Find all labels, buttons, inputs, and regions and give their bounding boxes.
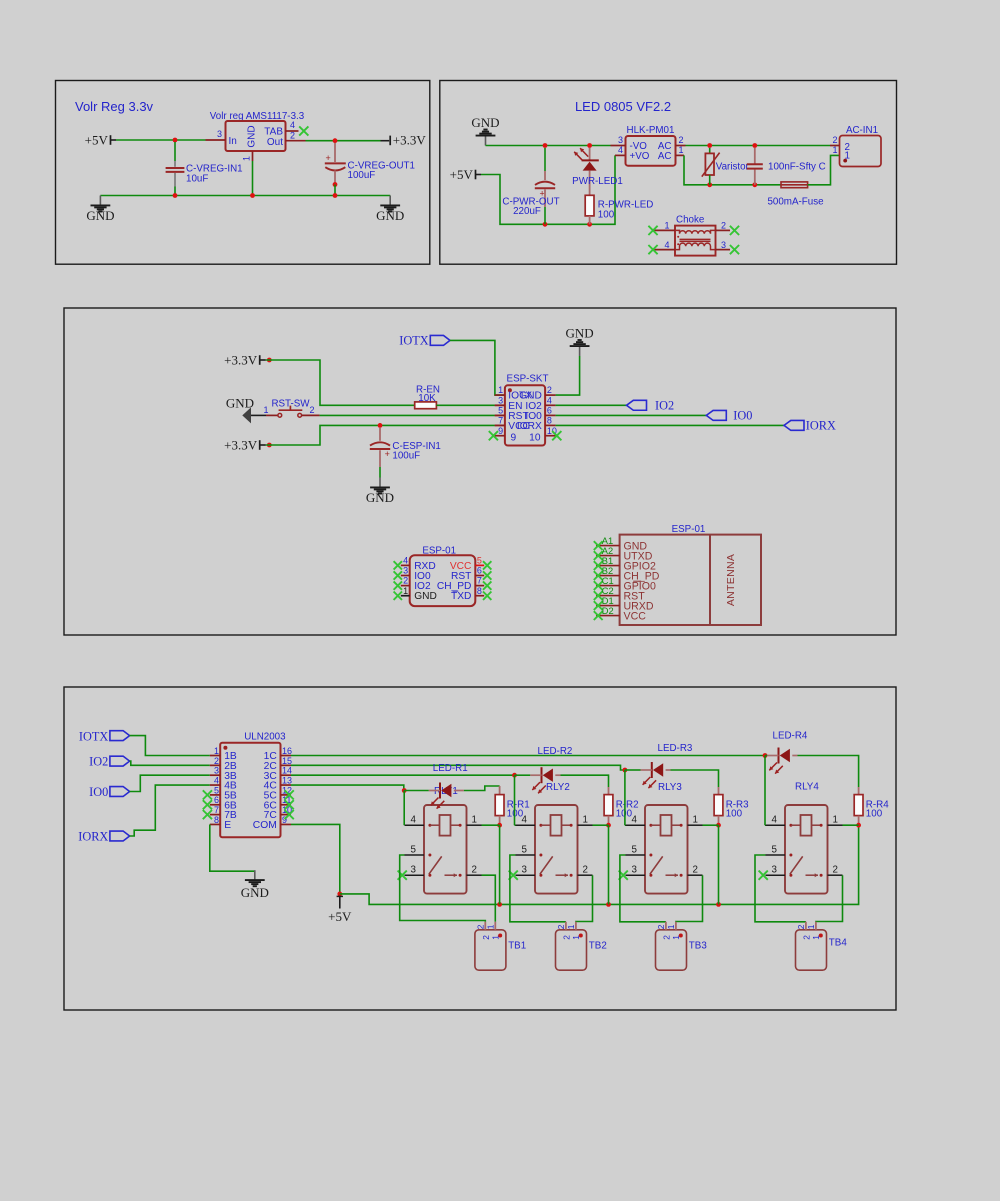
svg-text:100: 100 xyxy=(866,808,883,819)
svg-text:C2: C2 xyxy=(602,586,614,596)
junction GND rail at C-VREG-IN1 xyxy=(173,193,178,198)
resistor R-EN 10K xyxy=(415,402,437,409)
wire ULN COM to +5V xyxy=(291,824,340,893)
svg-text:8: 8 xyxy=(547,416,552,426)
net label IOTX xyxy=(430,335,450,345)
svg-text:3: 3 xyxy=(403,566,408,576)
svg-text:5: 5 xyxy=(632,844,638,855)
junction top rail at PWR-LED1 xyxy=(587,143,592,148)
svg-text:2: 2 xyxy=(556,924,566,929)
svg-text:4: 4 xyxy=(772,815,778,826)
svg-text:4: 4 xyxy=(411,815,417,826)
svg-text:100nF-Sfty C: 100nF-Sfty C xyxy=(768,161,826,172)
svg-text:ULN2003: ULN2003 xyxy=(244,732,286,743)
wire IO2 to ULN 2B xyxy=(130,761,210,765)
svg-text:100: 100 xyxy=(598,209,615,220)
wire GND rail bottom xyxy=(100,195,390,197)
svg-text:+VO: +VO xyxy=(630,151,650,162)
capacitor C-PWR-OUT 220uF polarized xyxy=(544,148,546,171)
wire GND rail top xyxy=(486,145,611,147)
svg-text:100uF: 100uF xyxy=(348,170,376,181)
svg-text:2: 2 xyxy=(662,935,672,940)
svg-text:5: 5 xyxy=(522,844,528,855)
junction AC rail at safety cap xyxy=(752,143,757,148)
section frame ESP xyxy=(64,308,896,635)
svg-text:+5V: +5V xyxy=(328,909,352,924)
svg-text:GND: GND xyxy=(86,208,114,223)
wire HLK AC to AC-IN1 xyxy=(686,145,831,147)
svg-text:13: 13 xyxy=(282,775,292,785)
svg-text:+3.3V: +3.3V xyxy=(224,437,258,452)
section frame relays xyxy=(64,687,896,1010)
wire ULN 3C row xyxy=(291,774,515,776)
wire HLK AC pin1 to bottom AC rail xyxy=(684,155,705,184)
wire RLY4 pin5 to TB4 xyxy=(755,855,806,922)
fuse F1 500mA xyxy=(781,182,808,188)
svg-text:A1: A1 xyxy=(602,536,613,546)
svg-text:GND: GND xyxy=(471,115,499,130)
wire RLY3 pin5 to TB3 xyxy=(620,855,666,922)
no-connect RLY4 pin3 xyxy=(759,871,768,880)
power flag +3.3V xyxy=(389,136,391,146)
terminal block TB1 xyxy=(475,930,506,970)
wire LED-R4 to R-R4 xyxy=(798,756,859,788)
svg-text:ESP-01: ESP-01 xyxy=(672,524,706,535)
svg-text:16: 16 xyxy=(282,746,292,756)
svg-text:4: 4 xyxy=(632,815,638,826)
svg-text:IO2: IO2 xyxy=(655,399,674,413)
section frame LED 0805 VF2.2 xyxy=(440,81,897,265)
svg-text:D2: D2 xyxy=(602,606,614,616)
svg-text:220uF: 220uF xyxy=(513,206,541,217)
svg-text:5: 5 xyxy=(477,556,482,566)
svg-text:LED 0805 VF2.2: LED 0805 VF2.2 xyxy=(575,99,671,114)
junction bottom rail at C-PWR-OUT xyxy=(543,222,548,227)
svg-text:500mA-Fuse: 500mA-Fuse xyxy=(767,196,824,207)
svg-text:2: 2 xyxy=(403,576,408,586)
svg-text:LED-R2: LED-R2 xyxy=(538,746,573,757)
net label IO0 xyxy=(110,787,130,797)
svg-text:5: 5 xyxy=(498,406,503,416)
svg-text:7: 7 xyxy=(477,576,482,586)
junction +5V rail at RLY1 xyxy=(497,902,502,907)
no-connect ESP-SKT pin10 xyxy=(552,431,561,440)
ground GND below C-ESP-IN1 xyxy=(379,478,381,488)
no-connect RLY3 pin3 xyxy=(619,871,628,880)
svg-text:GND: GND xyxy=(414,591,437,602)
svg-text:4: 4 xyxy=(403,556,408,566)
svg-text:2: 2 xyxy=(656,924,666,929)
wire LED-R3 to R-R3 xyxy=(671,770,719,787)
svg-text:LED-R4: LED-R4 xyxy=(773,730,808,741)
terminal block TB3 xyxy=(656,930,687,970)
svg-text:1: 1 xyxy=(486,924,496,929)
svg-text:5: 5 xyxy=(411,844,417,855)
svg-text:COM: COM xyxy=(253,820,277,831)
wire +5V to U-VREG In xyxy=(116,139,206,141)
wire 3C down to RLY2 pin4 xyxy=(514,775,516,825)
no-connect ESP-SKT pin9 xyxy=(489,431,498,440)
section frame Volr Reg 3.3v xyxy=(56,81,430,265)
wire ULN 1C row xyxy=(291,755,765,757)
capacitor 100nF-Sfty C xyxy=(754,148,756,164)
svg-text:IOTX: IOTX xyxy=(79,729,108,743)
junction GND rail at C-VREG-OUT1 xyxy=(333,193,338,198)
svg-text:4: 4 xyxy=(547,395,552,405)
wire RLY4 pin1 to +5V rail xyxy=(843,824,859,826)
svg-text:100: 100 xyxy=(726,808,743,819)
wire 2C down to RLY3 pin4 xyxy=(624,770,626,825)
wire RLY3 pin1 to +5V rail xyxy=(703,824,719,826)
svg-text:TXD: TXD xyxy=(451,591,471,602)
wire RLY4 pin2 to TB4 xyxy=(816,875,843,922)
wire IO0 to ULN 3B xyxy=(130,775,210,791)
svg-text:2: 2 xyxy=(547,385,552,395)
wire GND to ESP-SKT pin2 xyxy=(556,356,580,395)
no-connect choke pin4 xyxy=(648,245,657,254)
junction bottom AC rail at safety cap xyxy=(752,182,757,187)
resistor R-R1 100 xyxy=(495,795,504,816)
svg-text:+5V: +5V xyxy=(85,132,109,147)
wire ULN 2C row xyxy=(291,765,625,770)
power flag +5V xyxy=(337,892,342,897)
wire +3.3V to ESP-SKT pin7 VCC xyxy=(266,425,495,445)
svg-text:C1: C1 xyxy=(602,576,614,586)
no-connect ULN 7C xyxy=(285,810,294,819)
power flag +5V xyxy=(110,135,112,145)
junction at +3.3V lower xyxy=(267,443,272,448)
svg-text:IO2: IO2 xyxy=(89,755,108,769)
svg-text:4: 4 xyxy=(618,145,623,155)
svg-text:2: 2 xyxy=(214,756,219,766)
junction at C-VREG-OUT1 top xyxy=(333,138,338,143)
svg-text:3: 3 xyxy=(522,865,528,876)
LED PWR-LED1 xyxy=(589,148,591,160)
svg-text:3: 3 xyxy=(411,865,417,876)
svg-text:RLY2: RLY2 xyxy=(546,782,570,793)
svg-text:GND: GND xyxy=(366,490,394,505)
svg-text:2: 2 xyxy=(833,865,838,876)
wire RLY1 pin1 to R-R1 to +5V rail xyxy=(482,824,500,826)
svg-text:10uF: 10uF xyxy=(186,173,208,184)
no-connect ULN 7B xyxy=(203,810,212,819)
svg-text:1: 1 xyxy=(566,924,576,929)
junction +5V rail at RLY3 xyxy=(716,902,721,907)
svg-text:4: 4 xyxy=(664,240,669,250)
svg-text:10K: 10K xyxy=(418,393,436,404)
svg-text:4: 4 xyxy=(214,775,219,785)
no-connect on U1 TAB xyxy=(299,126,308,135)
svg-text:LED-R3: LED-R3 xyxy=(658,743,693,754)
junction RLY2 pin1 node xyxy=(606,823,611,828)
junction bottom rail at R-PWR-LED xyxy=(587,222,592,227)
wire RLY1 pin2 to TB1 xyxy=(482,875,496,922)
no-connect ULN 5B xyxy=(203,790,212,799)
svg-text:2: 2 xyxy=(679,135,684,145)
ground GND left xyxy=(99,196,101,206)
net label IO0 xyxy=(706,410,726,420)
svg-text:2: 2 xyxy=(721,220,726,230)
svg-text:TB4: TB4 xyxy=(829,937,848,948)
wire U1 GND pin down xyxy=(252,161,254,196)
wire RLY2 pin5 to TB2 xyxy=(510,855,566,922)
svg-text:Out: Out xyxy=(267,137,283,148)
svg-text:2: 2 xyxy=(562,935,572,940)
junction at +3.3V upper xyxy=(267,358,272,363)
resistor R-R3 100 xyxy=(714,795,723,816)
svg-text:IORX: IORX xyxy=(517,421,542,432)
svg-text:3: 3 xyxy=(772,865,778,876)
svg-text:IORX: IORX xyxy=(806,419,836,433)
wire +3.3V to R-EN xyxy=(266,360,415,405)
wire IORX to ULN 4B xyxy=(130,785,210,836)
svg-text:2: 2 xyxy=(476,924,486,929)
resistor R-PWR-LED 100 xyxy=(585,195,594,216)
svg-text:1: 1 xyxy=(806,924,816,929)
svg-text:B2: B2 xyxy=(602,566,613,576)
no-connect choke pin1 xyxy=(648,226,657,235)
svg-text:9: 9 xyxy=(498,426,503,436)
svg-text:3: 3 xyxy=(632,865,638,876)
svg-text:6: 6 xyxy=(214,795,219,805)
svg-text:7: 7 xyxy=(498,416,503,426)
no-connect choke pin2 xyxy=(730,226,739,235)
svg-text:3: 3 xyxy=(498,395,503,405)
junction AC rail at Varistor xyxy=(707,143,712,148)
wire 4C down to RLY1 pin4 xyxy=(403,791,405,826)
capacitor C-VREG-OUT1 100uF polarized xyxy=(334,143,336,162)
wire 1C to LED-R4 xyxy=(765,755,767,757)
wire LED-R2 to R-R2 xyxy=(561,775,609,787)
wire RLY2 pin1 to +5V rail xyxy=(593,824,609,826)
svg-text:1: 1 xyxy=(214,746,219,756)
wire RLY1 pin5 to TB1 xyxy=(400,855,486,922)
svg-text:2: 2 xyxy=(472,865,477,876)
svg-text:3: 3 xyxy=(217,129,222,139)
svg-text:9: 9 xyxy=(511,433,517,444)
svg-text:2: 2 xyxy=(693,865,698,876)
net label IORX xyxy=(110,831,130,841)
svg-text:2: 2 xyxy=(290,131,295,141)
terminal block TB2 xyxy=(556,930,587,970)
wire 4C to LED-R1 and RLY1 pin4 xyxy=(404,790,429,792)
svg-text:RLY3: RLY3 xyxy=(658,782,682,793)
svg-text:IO0: IO0 xyxy=(89,785,108,799)
svg-text:6: 6 xyxy=(547,406,552,416)
ground GND below ULN xyxy=(254,870,256,880)
svg-text:TB3: TB3 xyxy=(689,941,708,952)
power flag +3.3V upper xyxy=(259,355,261,365)
svg-text:2: 2 xyxy=(832,135,837,145)
no-connect ULN 6C xyxy=(285,800,294,809)
svg-text:GND: GND xyxy=(376,208,404,223)
svg-text:1: 1 xyxy=(472,815,477,826)
svg-text:2: 2 xyxy=(802,935,812,940)
svg-text:1: 1 xyxy=(833,815,838,826)
svg-text:IO0: IO0 xyxy=(733,409,752,423)
junction 3C at LED-R2 xyxy=(512,773,517,778)
wire U1 Out to +3.3V xyxy=(306,140,381,142)
junction RLY4 pin1 node xyxy=(856,823,861,828)
svg-text:1: 1 xyxy=(666,924,676,929)
svg-text:E: E xyxy=(224,820,231,831)
ground GND top xyxy=(579,347,581,356)
svg-text:+3.3V: +3.3V xyxy=(393,133,427,148)
svg-text:100uF: 100uF xyxy=(392,451,420,462)
resistor R-R2 100 xyxy=(604,795,613,816)
junction bottom AC rail at Varistor xyxy=(707,182,712,187)
junction 4C at LED-R1 xyxy=(402,788,407,793)
svg-text:IORX: IORX xyxy=(78,829,108,843)
svg-text:GND: GND xyxy=(241,885,269,900)
wire 1C down to RLY4 pin4 xyxy=(764,756,766,826)
junction 1C at LED-R4 xyxy=(763,753,768,758)
svg-text:+: + xyxy=(385,449,390,459)
svg-text:GND: GND xyxy=(226,396,254,411)
wire RST-SW to ESP-SKT pin5 xyxy=(320,414,495,416)
svg-text:1: 1 xyxy=(583,815,588,826)
no-connect ULN 5C xyxy=(285,790,294,799)
svg-text:2: 2 xyxy=(583,865,588,876)
svg-text:In: In xyxy=(229,136,237,147)
junction 2C at LED-R3 xyxy=(623,768,628,773)
resistor R-R4 100 xyxy=(854,795,863,816)
svg-text:+5V: +5V xyxy=(450,167,474,182)
svg-text:AC: AC xyxy=(658,151,672,162)
svg-text:VCC: VCC xyxy=(624,610,647,622)
svg-text:Varistor: Varistor xyxy=(716,161,750,172)
junction GND rail at U1 GND xyxy=(250,193,255,198)
wire ESP-SKT IORX to tag xyxy=(556,424,784,426)
junction top rail at C-PWR-OUT xyxy=(543,143,548,148)
wire ULN E to GND xyxy=(210,824,255,871)
svg-text:1: 1 xyxy=(263,405,268,415)
net label IO2 xyxy=(627,400,647,410)
svg-text:1: 1 xyxy=(679,145,684,155)
svg-text:+3.3V: +3.3V xyxy=(224,352,258,367)
svg-text:IOTX: IOTX xyxy=(399,334,428,348)
svg-text:D1: D1 xyxy=(602,596,614,606)
svg-text:Volr Reg 3.3v: Volr Reg 3.3v xyxy=(75,99,154,114)
no-connect ULN 6B xyxy=(203,800,212,809)
net label IORX xyxy=(784,420,804,430)
svg-text:1: 1 xyxy=(242,156,252,161)
wire LED-R1 to R-R1 xyxy=(464,786,500,791)
svg-text:+: + xyxy=(326,153,331,163)
svg-text:LED-R1: LED-R1 xyxy=(433,763,468,774)
junction RLY3 pin1 node xyxy=(716,823,721,828)
svg-text:2: 2 xyxy=(796,924,806,929)
wire ESP-SKT IO0 to tag xyxy=(556,414,707,416)
svg-text:8: 8 xyxy=(214,815,219,825)
wire +5V rail xyxy=(340,825,859,904)
svg-text:4: 4 xyxy=(522,815,528,826)
svg-text:3: 3 xyxy=(618,135,623,145)
wire +5V to bottom rail xyxy=(481,155,615,224)
junction VCC at C-ESP-IN1 xyxy=(378,423,383,428)
junction RLY1 pin1 node xyxy=(497,823,502,828)
svg-text:1: 1 xyxy=(403,586,408,596)
power flag +3.3V lower xyxy=(259,440,261,450)
no-connect RLY2 pin3 xyxy=(509,871,518,880)
wire IOTX to ESP-SKT pin1 xyxy=(450,340,505,395)
svg-text:A2: A2 xyxy=(602,546,613,556)
svg-text:TB1: TB1 xyxy=(508,941,526,952)
svg-text:1: 1 xyxy=(832,145,837,155)
svg-text:Choke: Choke xyxy=(676,214,705,225)
svg-text:ESP-SKT: ESP-SKT xyxy=(507,373,549,384)
no-connect RLY1 pin3 xyxy=(398,871,407,880)
svg-text:4: 4 xyxy=(290,120,295,130)
svg-text:1: 1 xyxy=(498,385,503,395)
junction +5V rail at RLY2 xyxy=(606,902,611,907)
varistor RV1 xyxy=(709,148,711,154)
capacitor C-VREG-IN1 10uF xyxy=(174,142,176,161)
power flag +5V xyxy=(475,170,477,180)
svg-text:10: 10 xyxy=(529,433,541,444)
svg-text:AC-IN1: AC-IN1 xyxy=(846,125,878,136)
capacitor C-ESP-IN1 100uF polarized xyxy=(379,428,381,441)
wire IOTX to ULN 1B xyxy=(130,736,210,756)
net label IO2 xyxy=(110,756,130,766)
svg-text:2: 2 xyxy=(310,405,315,415)
svg-text:5: 5 xyxy=(214,785,219,795)
svg-text:PWR-LED1: PWR-LED1 xyxy=(572,176,623,187)
svg-text:6: 6 xyxy=(477,566,482,576)
wire 3C to LED-R2 xyxy=(515,774,531,776)
svg-text:1: 1 xyxy=(693,815,698,826)
junction at C-VREG-IN1 top xyxy=(173,138,178,143)
wire ULN 4C row xyxy=(291,785,404,790)
svg-text:GND: GND xyxy=(247,125,258,147)
wire R-EN to ESP-SKT pin3 xyxy=(436,404,495,406)
svg-text:8: 8 xyxy=(477,586,482,596)
ground GND right xyxy=(389,196,391,206)
svg-text:3: 3 xyxy=(214,766,219,776)
svg-text:HLK-PM01: HLK-PM01 xyxy=(627,125,675,136)
net label IOTX xyxy=(110,731,130,741)
wire fuse to AC-IN1 pin1 xyxy=(808,155,840,184)
ground GND top xyxy=(485,136,487,145)
wire RLY3 pin2 to TB3 xyxy=(676,875,703,922)
svg-text:1: 1 xyxy=(664,220,669,230)
no-connect choke pin3 xyxy=(730,245,739,254)
wire bottom AC rail xyxy=(705,184,781,186)
svg-text:7: 7 xyxy=(214,805,219,815)
wire ESP-SKT IO2 to tag xyxy=(556,404,627,406)
wire RLY2 pin2 to TB2 xyxy=(576,875,593,922)
svg-text:3: 3 xyxy=(721,240,726,250)
svg-text:14: 14 xyxy=(282,766,292,776)
svg-text:TB2: TB2 xyxy=(589,941,607,952)
svg-text:2: 2 xyxy=(481,935,491,940)
svg-text:RLY4: RLY4 xyxy=(795,782,819,793)
svg-text:B1: B1 xyxy=(602,556,613,566)
svg-text:15: 15 xyxy=(282,756,292,766)
svg-text:GND: GND xyxy=(566,325,594,340)
svg-text:ANTENNA: ANTENNA xyxy=(725,554,737,606)
wire 2C to LED-R3 xyxy=(625,769,641,771)
svg-text:5: 5 xyxy=(772,844,778,855)
terminal block TB4 xyxy=(796,930,827,970)
